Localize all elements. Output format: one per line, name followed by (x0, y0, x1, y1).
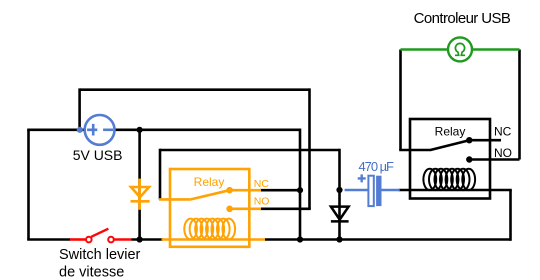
junction dot NC1 at x300 (297, 187, 303, 193)
wire vertical source top (78, 88, 81, 129)
relay2 NO contact dot (466, 156, 472, 162)
svg-text:Switch levier: Switch levier (59, 247, 141, 263)
wire vertical x160 to relay1 common (159, 149, 162, 200)
junction dot bus at x300 (297, 236, 303, 242)
wire NO2 horizontal (469, 158, 519, 161)
junction dot at diode top (336, 187, 342, 193)
capacitor C1 470uF wires (345, 189, 400, 192)
wire NC2 stub (469, 139, 501, 142)
relay1 NO contact dot (226, 206, 233, 213)
junction dot main wire x139.6 (137, 127, 143, 133)
wire vertical x519.5 NO2 to controller (518, 50, 521, 160)
wire left loop vertical (27, 130, 30, 240)
relay1 switch blade (191, 190, 230, 199)
junction dot bus x139.6 (137, 236, 143, 242)
svg-text:NO: NO (254, 196, 270, 208)
junction dot at diode bottom (336, 236, 342, 242)
relay1 NC contact dot (226, 187, 233, 194)
relay1 common stub (159, 198, 191, 201)
relay1 coil (184, 219, 235, 240)
capacitor C1 left plate (368, 176, 373, 206)
wire relay2 common vertical x400.5 (399, 50, 402, 151)
voltage source 5V USB circle (85, 115, 115, 145)
switch SW1 red wire left (70, 238, 85, 241)
svg-text:NC: NC (254, 178, 270, 190)
wire bottom bus black mid (132, 238, 164, 241)
diode D1 orange zener wire (138, 129, 141, 240)
wire bottom bus orange through relay1 (162, 238, 266, 241)
wire vertical x339.5 through diode (338, 149, 341, 240)
switch SW1 blade (91, 229, 108, 237)
voltage source minus sign (103, 129, 113, 132)
capacitor C1 plus sign (358, 174, 366, 182)
diode D2 black flyback (331, 207, 349, 222)
voltage source terminal dot (77, 127, 83, 133)
wire top horizontal (80, 88, 310, 91)
svg-text:Relay: Relay (435, 125, 466, 139)
voltage source plus sign (87, 124, 97, 136)
wire bottom bus black right (265, 238, 511, 241)
diode D1 orange triangle (131, 187, 150, 201)
svg-text:Controleur USB: Controleur USB (414, 10, 511, 27)
wire NC1 black segment (260, 189, 300, 192)
capacitor C1 right plate (376, 176, 381, 206)
svg-text:5V USB: 5V USB (73, 147, 123, 163)
relay2 NC contact dot (466, 137, 472, 143)
diode D1 orange vertical segment (138, 179, 141, 210)
wire relay2 common horizontal (399, 149, 431, 152)
wire from source right to corner x300 (115, 129, 300, 132)
wire coil2 horizontal black (399, 189, 512, 192)
svg-text:NO: NO (494, 146, 512, 160)
relay1 NO stub orange (230, 208, 261, 211)
wire vertical x309.5 down to NO1 (308, 88, 311, 208)
wire main horizontal from left loop to source (27, 129, 84, 132)
relay1 box orange (170, 169, 249, 247)
wire vertical x300 (299, 129, 302, 240)
svg-text:NC: NC (494, 125, 512, 139)
controller ohm symbol (455, 43, 465, 55)
relay2 box (410, 119, 490, 199)
wire bottom bus black left (27, 238, 70, 241)
wire y150 horizontal (160, 149, 340, 152)
svg-text:470 µF: 470 µF (359, 159, 395, 174)
switch SW1 red wire right (115, 238, 132, 241)
relay1 NC stub orange (230, 189, 261, 192)
relay2 switch blade (430, 140, 469, 150)
wire NO1 black segment (260, 208, 311, 211)
svg-text:Relay: Relay (194, 175, 225, 189)
wire vertical x510.5 coil2 return (509, 190, 512, 241)
relay2 coil (423, 169, 475, 190)
switch SW1 left terminal circle (86, 237, 92, 243)
svg-text:de vitesse: de vitesse (59, 264, 124, 280)
controller ohmmeter circle (448, 37, 472, 61)
wire green controller (401, 48, 520, 51)
switch SW1 right terminal circle (108, 237, 114, 243)
